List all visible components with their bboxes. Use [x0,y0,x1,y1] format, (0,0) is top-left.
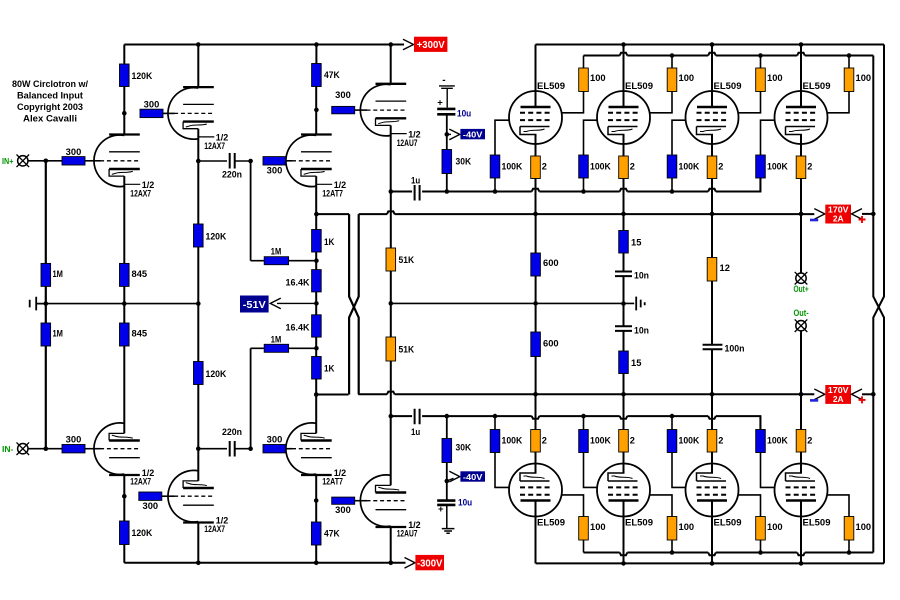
wire V11 plate down [711,501,713,564]
svg-text:12AU7: 12AU7 [397,138,418,149]
tube V7 (EL509) [686,91,739,144]
resistor 47K lower [311,522,321,545]
tube V2b (1/2 12AX7) [168,470,214,522]
resistor 300 V2a grid [140,109,163,117]
tube V8 (EL509) [775,91,828,144]
terminal IN- input [17,442,30,455]
terminal Out- terminal [795,319,808,332]
node V7 cathode bus node [710,212,715,217]
svg-text:100K: 100K [502,162,523,172]
svg-text:EL509: EL509 [625,81,653,91]
-300V arrow [405,558,416,569]
svg-text:16.4K: 16.4K [286,323,310,334]
svg-text:300: 300 [335,505,351,515]
svg-text:2: 2 [718,162,723,172]
svg-text:Balanced Input: Balanced Input [17,91,83,101]
resistor 120K mid lower [194,362,204,385]
wire V5 plate up [535,45,537,108]
wire IN- to junction [29,448,63,450]
wire output bus lower [358,392,814,395]
node grid rail node bot 3 [670,414,675,419]
svg-text:100K: 100K [590,436,611,446]
wire V2b cathode up [197,449,199,481]
wire 220n to node b [235,448,251,450]
resistor 100 screen top 2 [667,68,677,92]
wire screen chain bot 4 [828,495,850,553]
svg-text:1K: 1K [324,364,335,374]
svg-text:600: 600 [543,258,559,268]
svg-text:2: 2 [630,436,635,446]
tube V5 (EL509) [509,91,562,144]
capacitor 10u lower [437,501,455,505]
wire AU7b grid wire [355,500,367,502]
node screen bus node top 2 [670,53,675,58]
svg-text:IN+: IN+ [2,156,13,166]
wire to V1b grid [85,448,101,450]
wire V2b grid wire [162,495,175,497]
tube V10 (EL509) [597,464,650,517]
wire -300V rail [124,562,405,564]
node 51K mid node [389,301,394,306]
resistor 300 AT7a grid [263,157,286,165]
svg-text:Alex Cavalli: Alex Cavalli [23,114,77,124]
node V11 plate rail node [710,561,715,566]
node V2a plate rail node [196,42,201,47]
wire V1a vertical 120K to rail [123,45,125,65]
tube V1b (1/2 12AX7) [94,423,140,475]
svg-text:15: 15 [631,238,641,248]
wire screen chain top 2 [650,56,672,113]
svg-text:100: 100 [590,73,606,83]
wire screen chain bot 2 [650,495,672,553]
svg-text:2: 2 [542,436,547,446]
wire V6 cathode down [623,135,625,214]
svg-text:100: 100 [767,522,783,532]
terminal IN+ input [17,155,30,168]
wire 1M fb lower link [251,347,317,349]
node screen bus node top 3 [758,53,763,58]
resistor 1M fb upper [264,257,288,265]
svg-text:100: 100 [679,522,695,532]
svg-text:1M: 1M [53,329,64,339]
node supply upper node [871,212,876,217]
wire plate rail bottom [536,562,884,564]
node divider node 1 [314,258,319,263]
svg-text:100: 100 [679,73,695,83]
wire AT7b grid wire [286,448,292,450]
wire grid chain bot 3 [672,416,686,487]
svg-text:EL509: EL509 [714,81,742,91]
resistor 100 screen bot 2 [667,517,677,541]
node V10 plate rail node [621,561,626,566]
svg-text:-40V: -40V [463,129,483,139]
svg-text:51K: 51K [399,255,415,265]
wire screen chain top 4 [828,56,850,113]
resistor 120K upper left [120,64,130,87]
wire +300V rail [124,44,404,46]
node grid rail node bot 2 [581,414,586,419]
capacitor 220n lower [230,441,235,457]
wire grid chain bot 1 [495,416,509,487]
resistor 845 upper [120,263,130,286]
node AT7a cathode node [314,212,319,217]
resistor 100K grid top 4 [756,155,766,178]
wire screen chain bot 3 [739,495,761,553]
node AT7b cathode node [314,392,319,397]
wire screen chain top 3 [739,56,761,113]
svg-text:12AT7: 12AT7 [322,189,343,200]
wire left vertical IN+ to IN- [45,161,47,449]
wire AT7a cathode to cross [316,213,349,215]
wire plate rail top [536,44,885,46]
resistor 100 screen top 3 [756,68,766,92]
node V1a plate node [122,111,127,116]
svg-text:2: 2 [542,162,547,172]
node 30K rail node b [445,414,450,419]
wire right cross A [873,56,884,564]
wire AU7a cathode down [390,125,392,191]
node V9 cathode bus node [533,392,538,397]
node grid rail node top 3 [670,189,675,194]
wire V2a grid wire [163,112,175,114]
wire V10 plate down [623,501,625,564]
wire grid chain top 1 [495,120,509,191]
resistor 100K grid top 3 [667,155,677,178]
resistor 300 AT7b grid [263,445,286,453]
supply upper plus [859,216,866,223]
svg-text:10n: 10n [634,325,649,335]
tube V9 (EL509) [509,464,562,517]
resistor 120K mid upper [194,224,204,247]
wire rail to 30K b [446,416,448,438]
svg-text:300: 300 [335,90,351,100]
supply lower plus [859,396,866,403]
wire V8 plate up [800,45,802,108]
wire IN+ to junction [29,160,63,162]
node V8 cathode bus node [799,212,804,217]
wire V12 cathode up [800,394,802,473]
node screen bus node top 4 [847,53,852,58]
capacitor 10n upper [615,272,632,277]
resistor 2 ohm cathode bot 1 [531,430,541,453]
wire supply upper to vert [862,213,873,215]
node AT7b plate node [314,498,319,503]
tube V2a (1/2 12AX7) [168,87,214,139]
wire grid chain bot 2 [584,416,598,487]
170V 2A supply lower [814,389,825,400]
svg-text:EL509: EL509 [625,518,653,528]
svg-text:2: 2 [807,162,812,172]
svg-text:Out-: Out- [794,308,809,318]
tube V1a (1/2 12AX7) [94,135,140,187]
svg-text:100: 100 [590,522,606,532]
svg-text:47K: 47K [324,529,340,539]
wire V1b plate down [123,475,125,521]
svg-text:100: 100 [767,73,783,83]
node -51V node [314,301,319,306]
resistor 51K lower [386,337,396,361]
resistor 2 ohm cathode top 1 [531,156,541,179]
svg-text:100n: 100n [725,344,745,354]
svg-text:12AX7: 12AX7 [204,141,225,152]
svg-text:300: 300 [143,501,159,511]
node AU7b plate rail node [389,561,394,566]
svg-text:120K: 120K [206,369,227,379]
node screen bus node bot 4 [847,550,852,555]
resistor 100K grid bot 3 [667,430,677,453]
svg-text:+: + [437,98,443,109]
resistor 300 grid lower [62,445,85,453]
resistor 120K lower left [120,521,130,545]
-40V label lower [460,471,485,481]
resistor 2 ohm cathode top 2 [619,156,629,179]
wire Out+ drop [800,214,802,273]
svg-text:2: 2 [630,162,635,172]
resistor 51K upper [386,248,396,271]
wire 12-100n column [711,214,713,394]
svg-text:300: 300 [144,100,160,110]
svg-text:1u: 1u [411,427,420,437]
wire 51K column [390,192,392,417]
tube V11 (EL509) [686,464,739,517]
-40V label upper [460,129,485,139]
wire 30K to 10u b [446,463,448,500]
-40V arrow upper [447,133,451,135]
wire V9 cathode up [535,394,537,473]
svg-text:220n: 220n [222,170,242,180]
resistor 600 lower [531,332,541,357]
wire grid chain top 4 [761,120,775,191]
wire V2a cathode chain [197,129,199,449]
svg-text:120K: 120K [206,232,227,242]
resistor 2 ohm cathode top 4 [796,156,806,179]
svg-text:80W Circlotron w/: 80W Circlotron w/ [12,79,88,89]
svg-text:100K: 100K [767,436,788,446]
svg-text:12: 12 [720,263,730,273]
resistor 100K grid top 2 [579,155,589,178]
node grid rail node top 1 [493,189,498,194]
wire AU7b plate down [390,527,392,563]
svg-text:15: 15 [631,358,641,368]
wire V1a cathode chain [123,176,125,433]
wire AT7a grid wire [286,160,292,162]
wire 10u to -40V node [446,115,448,150]
resistor 300 grid upper [62,157,85,165]
wire AU7b cathode up [390,416,392,485]
node 600 mid node [533,301,538,306]
svg-text:220n: 220n [222,427,242,437]
svg-text:30K: 30K [456,157,472,167]
svg-text:10n: 10n [634,270,649,280]
svg-text:2A: 2A [833,394,844,404]
wire AT7a plate up [315,87,317,135]
node screen bus node bot 3 [758,550,763,555]
node mid ground right node [196,301,201,306]
svg-text:EL509: EL509 [537,81,565,91]
node AU7a plate rail node [389,42,394,47]
node input- node [44,446,49,451]
wire 120K to bottom rail [123,545,125,563]
ground middle [636,297,645,311]
resistor 1K lower [312,357,322,380]
node screen bus node bot 2 [670,550,675,555]
resistor 100K grid top 1 [490,155,500,178]
wire AT7b plate down [315,475,317,522]
svg-text:10u: 10u [458,498,472,508]
+300V label [414,37,447,52]
wire V8 cathode down [800,135,802,214]
node V6 cathode bus node [621,212,626,217]
wire 1M bias drop upper [250,161,252,261]
resistor 845 lower [120,323,130,346]
ground bottom bias [442,506,455,534]
wire V5 cathode down [535,135,537,214]
170V 2A supply upper [814,209,825,220]
node supply lower node [871,392,876,397]
node AT7a grid node [248,159,253,164]
svg-text:300: 300 [267,165,283,175]
node V12 plate rail node [799,561,804,566]
tube V4a (1/2 12AU7) [360,84,406,136]
wire V7 plate up [711,45,713,108]
wire cross left B [349,214,359,394]
resistor 300 AU7b grid [332,497,355,504]
svg-text:845: 845 [132,269,148,279]
svg-text:EL509: EL509 [537,518,565,528]
svg-text:+300V: +300V [417,40,445,51]
svg-text:16.4K: 16.4K [286,277,310,288]
svg-text:100K: 100K [679,162,700,172]
svg-text:2: 2 [807,436,812,446]
wire supply lower to vert [862,393,873,395]
node 220n upper node [196,159,201,164]
svg-text:-300V: -300V [417,558,443,569]
resistor 100K grid bot 1 [490,430,500,453]
wire ground row left [46,303,199,305]
wire V9 plate down [535,501,537,564]
svg-text:300: 300 [66,147,82,157]
node V7 plate rail node [710,42,715,47]
svg-text:300: 300 [66,435,82,445]
capacitor 10u upper [437,109,455,114]
terminal Out+ terminal [795,272,808,285]
supply lower minus [810,399,818,402]
resistor 100 screen top 1 [579,68,589,92]
resistor 2 ohm cathode bot 2 [619,430,629,453]
resistor 600 upper [531,253,541,276]
svg-text:12AT7: 12AT7 [322,477,343,488]
wire AU7a grid wire [355,109,367,111]
resistor 100 screen bot 4 [844,517,854,541]
wire middle tap row [391,302,634,304]
svg-text:47K: 47K [324,70,340,80]
svg-text:10u: 10u [457,109,471,119]
wire 30K to rail [446,174,448,192]
resistor 100 screen bot 3 [756,517,766,541]
wire grid chain top 3 [672,120,686,191]
supply upper minus [810,219,818,222]
svg-text:12AX7: 12AX7 [204,524,225,535]
node drive node lower [389,414,394,419]
wire to 220n upper [198,160,227,162]
svg-text:1M: 1M [271,247,282,257]
node divider node 2 [314,346,319,351]
svg-text:300: 300 [267,435,283,445]
wire V10 cathode up [623,394,625,473]
resistor 100 screen top 4 [844,68,854,92]
node drive node upper [389,189,394,194]
svg-text:-40V: -40V [463,472,483,482]
wire 15-10n column [623,214,625,394]
node 845 mid node [122,301,127,306]
resistor 2 ohm cathode top 3 [707,156,717,179]
node V12 cathode bus node [799,392,804,397]
resistor 100K grid bot 2 [579,430,589,453]
svg-text:EL509: EL509 [803,81,831,91]
svg-text:Copyright 2003: Copyright 2003 [17,102,83,112]
node AT7b grid node [248,446,253,451]
svg-text:12AX7: 12AX7 [130,189,151,200]
wire screen chain bot 1 [562,495,584,553]
capacitor 220n upper [230,153,235,169]
tube V12 (EL509) [775,464,828,517]
capacitor 1u upper [415,185,420,201]
node 10n mid node [621,301,626,306]
svg-text:100K: 100K [502,436,523,446]
wire V2a plate up [197,45,199,88]
wire V12 plate down [800,501,802,564]
svg-text:1M: 1M [53,269,64,279]
svg-text:100: 100 [856,522,872,532]
resistor 2 ohm cathode bot 3 [707,430,717,453]
wire to 220n lower [198,448,227,450]
wire 600 column [535,214,537,394]
wire AT7a cathode chain [315,176,317,433]
resistor 1M lower [41,323,51,346]
resistor 300 AU7a grid [332,106,355,113]
capacitor 10n lower [615,326,632,331]
capacitor 100n [703,345,723,350]
resistor 1M upper [41,263,51,286]
svg-text:-: - [442,75,445,86]
svg-text:30K: 30K [456,443,472,453]
svg-text:100K: 100K [679,436,700,446]
svg-text:1u: 1u [411,176,420,186]
svg-text:1K: 1K [324,237,335,247]
wire 47K to rail [315,45,317,64]
wire drive rail upper [391,178,761,192]
node grid rail node top 2 [581,189,586,194]
svg-text:2A: 2A [833,213,844,223]
node V10 cathode bus node [621,392,626,397]
svg-text:100K: 100K [767,162,788,172]
node 30K rail node [445,189,450,194]
resistor 16.4K lower [312,315,322,337]
tube V3b (1/2 12AT7) [286,423,332,475]
node V1b plate node [122,494,127,499]
resistor 300 V2b grid [139,492,162,500]
node AT7a plate node [314,108,319,113]
-51V bias arrow [277,302,316,304]
resistor 15 upper [619,231,629,254]
node left ground node [44,301,49,306]
resistor 12 ohm [707,258,717,282]
-51V label [240,296,269,313]
resistor 1K upper [312,230,322,253]
svg-text:IN-: IN- [2,444,14,454]
node 47K rail node [314,42,319,47]
node grid rail node bot 1 [493,414,498,419]
